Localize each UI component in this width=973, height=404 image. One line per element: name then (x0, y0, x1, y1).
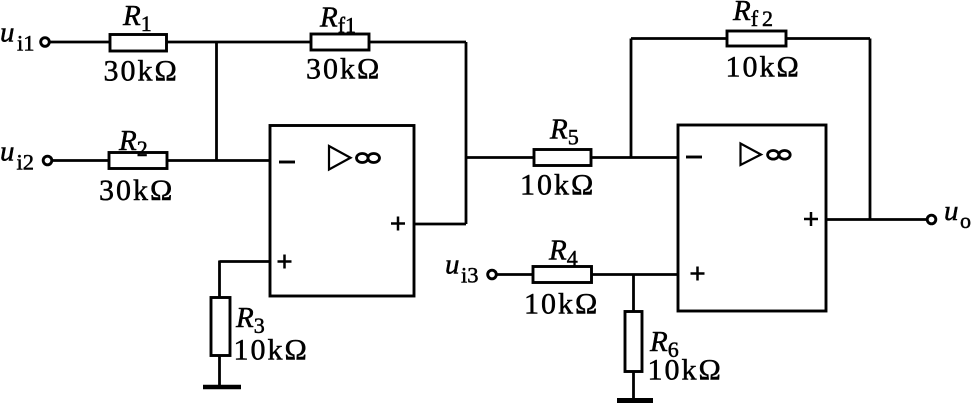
wire node A through R5 to op-amp U2 inverting input (466, 156, 678, 159)
resistor R3 body (vertical) (211, 298, 230, 356)
op-amp U2 noninverting input plus sign (691, 267, 705, 281)
resistor R5 body (534, 150, 591, 166)
wire Rf2 left end down to U2 inverting input net (630, 39, 633, 158)
op-amp U1 gain triangle (329, 146, 351, 170)
op-amp U2 output plus sign (804, 212, 818, 226)
wire op-amp U1 noninverting input down to R3 (218, 261, 221, 299)
op-amp U1 noninverting input plus sign (278, 255, 292, 269)
op-amp U2 gain triangle (741, 144, 762, 166)
resistor R6 body (vertical) (625, 312, 642, 372)
svg-text:10kΩ: 10kΩ (648, 354, 723, 387)
svg-text:10kΩ: 10kΩ (234, 334, 309, 367)
resistor R2 body (109, 153, 167, 169)
input terminal u_i1 (41, 38, 50, 47)
resistor Rf1 body (311, 34, 369, 50)
wire R3 bottom to ground (218, 355, 221, 387)
op-amp U1 output plus sign (391, 217, 405, 231)
svg-text:10kΩ: 10kΩ (726, 51, 801, 84)
op-amp U1 inverting input minus sign (279, 161, 295, 164)
output terminal u_o (927, 215, 936, 224)
wire u_i3 terminal through R4 to op-amp U2 noninverting input (497, 273, 678, 276)
wire node A vertical (Rf1 right end down to U1 output) (465, 42, 468, 224)
wire op-amp U1 output to node A (414, 223, 466, 226)
wire junction down to R6 (632, 275, 635, 313)
wire u_i2 terminal through R2 to op-amp U1 inverting input (53, 159, 271, 162)
resistor R4 body (533, 267, 592, 283)
svg-text:10kΩ: 10kΩ (524, 288, 599, 321)
op-amp U1 infinity symbol (357, 154, 380, 163)
svg-text:10kΩ: 10kΩ (520, 169, 595, 202)
wire op-amp U2 output to u_o terminal (826, 218, 926, 221)
wire R6 bottom to ground (632, 371, 635, 400)
wire Rf2 right end down to output net (869, 39, 872, 220)
wire Rf2 feedback top horizontal (631, 37, 870, 40)
svg-text:30kΩ: 30kΩ (306, 53, 381, 86)
input terminal u_i2 (43, 156, 52, 165)
svg-text:30kΩ: 30kΩ (104, 55, 179, 88)
wire junction vertical from R1 output down to inverting input net (215, 42, 218, 161)
resistor Rf2 body (727, 31, 786, 46)
wire u_i1 terminal to node A (through R1 and Rf1) (50, 41, 466, 44)
op-amp U2 infinity symbol (768, 151, 791, 160)
input terminal u_i3 (488, 270, 497, 279)
op-amp U1 body (270, 126, 414, 297)
svg-text:30kΩ: 30kΩ (99, 174, 174, 207)
op-amp U2 inverting input minus sign (686, 156, 702, 159)
wire op-amp U1 noninverting input horizontal (220, 260, 271, 263)
op-amp U2 body (678, 125, 826, 311)
ground symbol below R3 (203, 385, 241, 390)
resistor R1 body (110, 35, 167, 52)
ground symbol below R6 (617, 398, 653, 403)
